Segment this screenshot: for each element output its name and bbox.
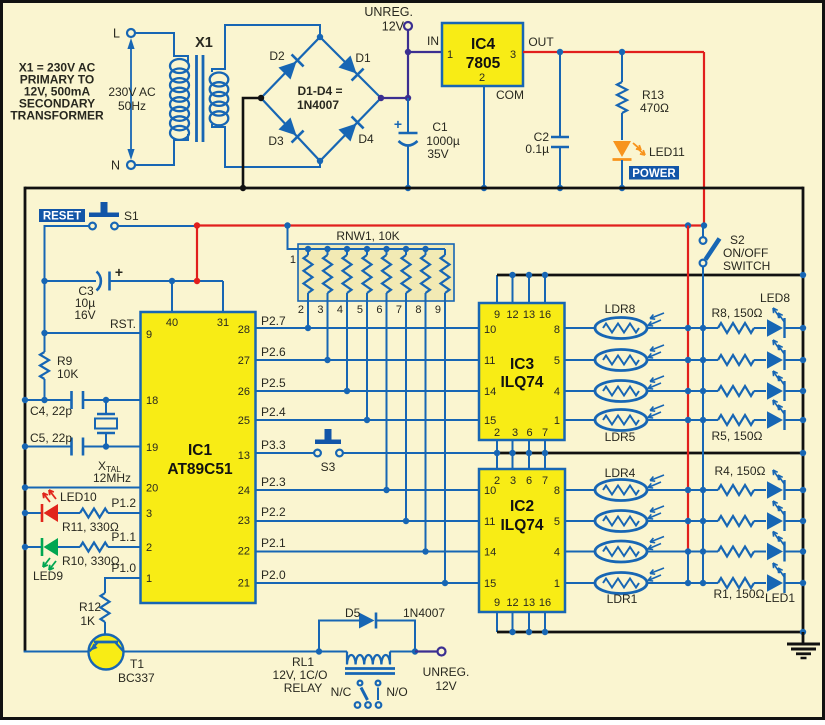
wire opto output row y=360 <box>565 359 597 361</box>
LDR at row y=583 <box>595 568 664 594</box>
node LDR-switch y=521 <box>700 518 706 524</box>
node LDR-switch y=490 <box>700 487 706 493</box>
svg-text:1: 1 <box>290 254 296 266</box>
ground bus left <box>24 187 27 652</box>
wire bridge to IC4 input (unreg 12V) <box>381 52 442 98</box>
svg-text:R8, 150Ω: R8, 150Ω <box>712 306 763 320</box>
svg-text:P2.6: P2.6 <box>261 345 286 359</box>
terminal N <box>111 159 135 173</box>
node LDR-red y=328 <box>685 325 691 331</box>
svg-text:470Ω: 470Ω <box>640 101 669 115</box>
wire P3.3 to S3 <box>256 452 315 454</box>
wire secondary top to bridge <box>212 25 320 72</box>
LDR at row y=328 <box>595 313 664 339</box>
node +5V corner <box>685 222 691 228</box>
IC1 left pin numbers <box>146 329 158 585</box>
node LED-gnd y=360 <box>800 357 806 363</box>
node bridge left <box>258 95 264 101</box>
node bridge right <box>378 95 384 101</box>
XTAL label <box>93 459 131 485</box>
LED10 red indicator <box>25 490 97 522</box>
wire LED to ground bus y=328 <box>785 327 804 329</box>
wire COM to ground bus <box>483 86 485 188</box>
node relay left <box>316 648 322 654</box>
LDR at row y=490 <box>595 475 664 501</box>
svg-text:18: 18 <box>146 395 158 407</box>
svg-text:LED8: LED8 <box>760 291 790 305</box>
series resistor at row y=360 <box>718 355 754 365</box>
wire C4 row <box>25 399 71 401</box>
svg-text:11: 11 <box>484 516 495 528</box>
wire C1 to ground bus <box>407 146 409 188</box>
diode D1 <box>338 51 371 81</box>
svg-text:LDR1: LDR1 <box>607 592 638 606</box>
svg-text:R5, 150Ω: R5, 150Ω <box>712 429 763 443</box>
wire LED11 to ground bus <box>621 160 623 188</box>
node COM-gnd <box>481 185 487 191</box>
wire opto output row y=551.5 <box>565 551 597 553</box>
svg-text:10: 10 <box>484 324 496 336</box>
node C1-gnd <box>405 185 411 191</box>
wire LED to ground bus y=521 <box>785 520 804 522</box>
svg-text:1: 1 <box>554 415 560 427</box>
svg-text:POWER: POWER <box>632 168 676 180</box>
pushbutton S3 <box>314 429 343 474</box>
node LDR-red y=420 <box>685 417 691 423</box>
capacitor C3 <box>45 264 224 333</box>
node LED10-gnd <box>22 510 28 516</box>
wire S2 to LED rows <box>702 266 704 583</box>
terminal UNREG 12V top <box>364 5 413 34</box>
wire +5V down to switch S2 <box>703 52 705 226</box>
node C4-R9 <box>41 397 47 403</box>
LDR at row y=420 <box>595 405 664 431</box>
svg-text:P1.0: P1.0 <box>111 561 136 575</box>
wire L to primary <box>135 33 188 62</box>
crystal XTAL 12MHz <box>95 400 117 447</box>
svg-text:1K: 1K <box>80 614 95 628</box>
IC3 top pin risers <box>497 275 545 303</box>
transistor T1 BC337 <box>88 635 155 686</box>
wire to IC1 pin 31 <box>222 281 224 312</box>
svg-text:0.1µ: 0.1µ <box>525 142 549 156</box>
wire S1 left leg <box>45 226 90 278</box>
resistor R13 <box>617 52 669 140</box>
svg-text:23: 23 <box>238 515 250 527</box>
svg-text:AT89C51: AT89C51 <box>167 461 233 478</box>
svg-text:RST.: RST. <box>110 317 136 331</box>
svg-text:R12: R12 <box>79 600 101 614</box>
wire opto output row y=391 <box>565 390 597 392</box>
IC3 bottom risers to IC2 <box>497 440 545 469</box>
svg-text:UNREG.: UNREG. <box>364 5 413 19</box>
svg-text:2: 2 <box>479 72 485 84</box>
series resistor at row y=490 <box>718 485 754 495</box>
svg-text:ILQ74: ILQ74 <box>500 517 543 534</box>
svg-text:ON/OFF: ON/OFF <box>723 246 768 260</box>
wire LED to ground bus y=360 <box>785 359 804 361</box>
svg-text:8: 8 <box>415 304 421 316</box>
svg-text:230V AC: 230V AC <box>108 85 156 99</box>
LED at row y=328 <box>767 308 785 338</box>
svg-text:D3: D3 <box>268 134 284 148</box>
svg-text:LED9: LED9 <box>33 569 63 583</box>
svg-text:P1.1: P1.1 <box>111 530 136 544</box>
svg-text:L: L <box>113 27 120 41</box>
svg-text:BC337: BC337 <box>118 671 155 685</box>
svg-text:C1: C1 <box>432 120 448 134</box>
node S1-+5V <box>194 222 200 228</box>
wire row P2.2 <box>256 520 480 522</box>
node C3-pin40 <box>169 278 175 284</box>
svg-text:13: 13 <box>523 597 535 609</box>
svg-text:12V, 1C/O: 12V, 1C/O <box>273 668 328 682</box>
svg-text:6: 6 <box>376 304 382 316</box>
optocoupler IC3 ILQ74 <box>479 303 565 440</box>
diode D2 <box>269 49 303 80</box>
svg-text:IC3: IC3 <box>510 356 535 373</box>
LED at row y=490 <box>767 470 785 500</box>
ground bus bottom <box>497 631 803 634</box>
svg-text:P2.1: P2.1 <box>261 536 286 550</box>
svg-text:P2.7: P2.7 <box>261 314 286 328</box>
svg-text:6: 6 <box>526 427 532 439</box>
+5V red drop to LED rows <box>687 226 689 552</box>
node S2 top feed <box>701 222 707 228</box>
ground bus upper right <box>497 274 803 277</box>
svg-text:LED10: LED10 <box>60 490 97 504</box>
node C4-xtal <box>103 397 109 403</box>
wire to C1 <box>407 98 409 132</box>
node LED-gnd y=328 <box>800 325 806 331</box>
svg-text:S1: S1 <box>124 209 139 223</box>
node unreg-in <box>405 49 411 55</box>
svg-text:D5: D5 <box>345 606 361 620</box>
node C2 top <box>557 49 563 55</box>
node LDR-red y=391 <box>685 388 691 394</box>
node bridge bottom <box>317 158 323 164</box>
wire row P2.7 <box>256 327 480 329</box>
node LDR-switch y=328 <box>700 325 706 331</box>
svg-text:2: 2 <box>146 542 152 554</box>
node LED11-gnd <box>619 185 625 191</box>
LED at row y=551.5 <box>767 532 785 562</box>
svg-text:19: 19 <box>146 442 158 454</box>
wire S3 to ground bus <box>343 452 497 454</box>
wire opto output row y=328 <box>565 327 597 329</box>
capacitor C2 <box>525 52 569 188</box>
svg-text:R4, 150Ω: R4, 150Ω <box>715 464 766 478</box>
wire collector to relay <box>124 651 347 653</box>
node LED-gnd y=420 <box>800 417 806 423</box>
RNW1 common rail from +5V <box>288 226 446 250</box>
svg-text:C5, 22p: C5, 22p <box>30 431 72 445</box>
transformer X1 secondary coil <box>210 73 229 126</box>
bridge wires <box>261 37 381 161</box>
svg-text:P2.3: P2.3 <box>261 475 286 489</box>
svg-text:COM: COM <box>496 88 524 102</box>
svg-text:5: 5 <box>554 516 560 528</box>
series resistor at row y=583 <box>718 578 754 588</box>
node LED-gnd y=391 <box>800 388 806 394</box>
svg-text:11: 11 <box>484 355 495 367</box>
node RST <box>41 330 47 336</box>
svg-text:16: 16 <box>539 597 551 609</box>
svg-text:LDR4: LDR4 <box>605 466 636 480</box>
LED at row y=420 <box>767 400 785 430</box>
note: transformer specification text <box>10 61 104 123</box>
wire RST row <box>45 332 141 334</box>
relay contacts N/C N/O <box>331 681 408 708</box>
svg-text:10K: 10K <box>57 367 78 381</box>
LED at row y=391 <box>767 371 785 401</box>
svg-text:3: 3 <box>510 49 516 61</box>
LED at row y=583 <box>767 563 785 593</box>
svg-text:10: 10 <box>484 485 496 497</box>
switch S2 on/off <box>700 226 771 274</box>
svg-text:7: 7 <box>542 427 548 439</box>
svg-text:3: 3 <box>512 427 518 439</box>
svg-text:9: 9 <box>435 304 441 316</box>
svg-text:24: 24 <box>238 485 250 497</box>
wire +5V from IC4 OUT <box>523 51 704 53</box>
svg-text:N: N <box>111 159 120 173</box>
wire row P2.0 <box>256 582 480 584</box>
pushbutton S1 <box>89 202 139 229</box>
svg-text:9: 9 <box>494 309 500 321</box>
svg-text:22: 22 <box>238 546 250 558</box>
+5V rail red horizontal <box>197 224 704 226</box>
node R13 top <box>619 49 625 55</box>
svg-text:S2: S2 <box>730 233 745 247</box>
node LED-gnd y=551.5 <box>800 548 806 554</box>
svg-text:TRANSFORMER: TRANSFORMER <box>10 109 104 123</box>
svg-text:31: 31 <box>217 317 229 329</box>
svg-text:SWITCH: SWITCH <box>723 259 770 273</box>
diode D5 loop <box>319 621 359 652</box>
svg-text:4: 4 <box>554 386 560 398</box>
svg-text:RNW1, 10K: RNW1, 10K <box>336 229 399 243</box>
svg-text:16V: 16V <box>74 308 95 322</box>
wire to IC1 pin 40 <box>171 281 173 312</box>
svg-text:28: 28 <box>238 324 250 336</box>
wire IC1 pin20 to frame <box>25 487 141 489</box>
svg-text:12MHz: 12MHz <box>93 471 131 485</box>
svg-text:N/C: N/C <box>331 685 352 699</box>
LED9 green indicator <box>25 538 63 583</box>
svg-text:4: 4 <box>554 547 560 559</box>
wire opto output row y=521 <box>565 520 597 522</box>
svg-text:D1: D1 <box>355 51 371 65</box>
svg-text:40: 40 <box>166 317 178 329</box>
wire S1 right to +5V node <box>118 225 197 227</box>
wire LED to ground bus y=551.5 <box>785 551 804 553</box>
svg-text:P2.4: P2.4 <box>261 405 286 419</box>
LED11 power indicator <box>613 141 686 160</box>
svg-text:LED1: LED1 <box>765 591 795 605</box>
node LDR-red y=521 <box>685 518 691 524</box>
svg-text:RL1: RL1 <box>292 655 314 669</box>
svg-text:27: 27 <box>238 355 250 367</box>
resistor R10 <box>58 543 141 569</box>
node LDR-red y=551.5 <box>685 548 691 554</box>
node bridge-gnd junction <box>240 185 246 191</box>
svg-text:N/O: N/O <box>386 685 407 699</box>
svg-text:6: 6 <box>526 475 532 487</box>
node C5-xtal <box>103 443 109 449</box>
svg-text:IC2: IC2 <box>510 498 534 515</box>
svg-text:R9: R9 <box>57 354 73 368</box>
wire resistor to LED y=583 <box>754 582 766 584</box>
diode D5 <box>345 606 445 629</box>
series resistor at row y=391 <box>718 386 754 396</box>
svg-text:9: 9 <box>494 597 500 609</box>
diode D4 <box>338 116 374 146</box>
node LDR-switch y=391 <box>700 388 706 394</box>
svg-text:R11, 330Ω: R11, 330Ω <box>62 520 119 534</box>
node LDR-switch y=583 <box>700 580 706 586</box>
node LED-gnd y=583 <box>800 580 806 586</box>
svg-text:LED11: LED11 <box>649 145 685 159</box>
POWER label <box>629 166 679 180</box>
capacitor C5 <box>30 431 141 456</box>
node LDR-switch y=360 <box>700 357 706 363</box>
resistor R12 <box>79 593 110 635</box>
wire resistor to LED y=328 <box>754 327 766 329</box>
LED at row y=360 <box>767 340 785 370</box>
svg-text:8: 8 <box>554 324 560 336</box>
series resistor at row y=521 <box>718 516 754 526</box>
svg-text:IN: IN <box>427 34 439 48</box>
ground bus right <box>802 187 805 632</box>
RNW1 column drops <box>305 293 448 586</box>
wire red drop continues to last row <box>687 552 689 584</box>
svg-text:+: + <box>115 264 123 280</box>
svg-text:16: 16 <box>539 309 551 321</box>
IC1 port labels <box>111 314 286 582</box>
wire emitter to frame <box>24 651 89 653</box>
svg-text:C4, 22p: C4, 22p <box>30 404 72 418</box>
svg-text:1N4007: 1N4007 <box>297 98 339 112</box>
svg-text:20: 20 <box>146 483 158 495</box>
wire resistor to LED y=551.5 <box>754 551 766 553</box>
wire row P2.5 <box>256 390 480 392</box>
regulator IC4 7805 <box>427 23 554 102</box>
svg-text:D2: D2 <box>269 49 285 63</box>
svg-text:50Hz: 50Hz <box>118 99 146 113</box>
nodes on upper right bus <box>509 272 806 278</box>
svg-text:IC1: IC1 <box>188 442 213 459</box>
node bridge-out <box>405 95 411 101</box>
node LED9-gnd <box>22 544 28 550</box>
terminal UNREG 12V bottom <box>423 648 470 694</box>
wire resistor to LED y=360 <box>754 359 766 361</box>
node RNW1 feed <box>284 222 290 228</box>
wire bridge left to ground bus <box>243 98 261 188</box>
svg-text:1: 1 <box>447 49 453 61</box>
wire row P2.4 <box>256 419 480 421</box>
optocoupler IC2 ILQ74 <box>479 469 565 612</box>
wire resistor to LED y=490 <box>754 489 766 491</box>
svg-text:13: 13 <box>238 450 250 462</box>
bridge value label <box>297 84 343 112</box>
node LDR-red y=583 <box>685 580 691 586</box>
svg-text:21: 21 <box>238 578 250 590</box>
LDR at row y=551.5 <box>595 537 664 563</box>
svg-text:14: 14 <box>484 386 496 398</box>
capacitor C1 <box>394 116 460 161</box>
wire row P2.6 <box>256 359 480 361</box>
svg-text:X1: X1 <box>195 35 213 51</box>
wire LED to ground bus y=490 <box>785 489 804 491</box>
IC2 bottom risers to ground bus <box>497 612 545 632</box>
node relay right <box>412 648 418 654</box>
svg-text:3: 3 <box>510 475 516 487</box>
svg-text:12V: 12V <box>382 20 405 34</box>
resistor R11 <box>58 509 141 535</box>
nodes on middle bus <box>494 450 806 456</box>
wire relay to unreg terminal <box>415 650 438 652</box>
wire opto output row y=420 <box>565 419 597 421</box>
series resistor at row y=328 <box>718 323 754 333</box>
wire resistor to LED y=391 <box>754 390 766 392</box>
svg-text:IC4: IC4 <box>471 36 496 53</box>
svg-text:OUT: OUT <box>528 35 554 49</box>
svg-text:1: 1 <box>554 578 560 590</box>
wire row P2.1 <box>256 551 480 553</box>
wire IC1 pin1 to R12 <box>105 578 141 593</box>
svg-text:13: 13 <box>523 309 535 321</box>
svg-text:RELAY: RELAY <box>284 681 322 695</box>
node C5-gnd frame <box>22 443 28 449</box>
node LDR-switch y=420 <box>700 417 706 423</box>
microcontroller IC1 AT89C51 <box>141 312 256 603</box>
ground bus top <box>25 187 803 190</box>
svg-text:ILQ74: ILQ74 <box>500 374 543 391</box>
svg-text:5: 5 <box>357 304 363 316</box>
diode D3 <box>268 117 303 148</box>
wire LED to ground bus y=391 <box>785 390 804 392</box>
diode D5 loop right <box>376 621 415 652</box>
transformer X1 primary coil <box>170 59 189 140</box>
svg-text:1N4007: 1N4007 <box>403 606 445 620</box>
svg-text:RESET: RESET <box>43 211 81 223</box>
node LED-gnd y=490 <box>800 487 806 493</box>
IC1 right pin numbers <box>238 324 250 590</box>
LED at row y=521 <box>767 501 785 531</box>
svg-text:UNREG.: UNREG. <box>423 665 470 679</box>
RESET label <box>39 209 85 223</box>
svg-text:1000µ: 1000µ <box>426 134 460 148</box>
wire resistor to LED y=521 <box>754 520 766 522</box>
svg-text:D1-D4 =: D1-D4 = <box>297 84 342 98</box>
svg-text:P2.2: P2.2 <box>261 505 286 519</box>
svg-text:1: 1 <box>146 573 152 585</box>
svg-text:P1.2: P1.2 <box>111 496 136 510</box>
capacitor C4 <box>30 391 141 418</box>
wire secondary bottom to bridge <box>212 124 320 167</box>
nodes on bottom bus <box>509 629 806 635</box>
series resistor at row y=551.5 <box>718 547 754 557</box>
wire resistor to LED y=420 <box>754 419 766 421</box>
wire N to primary <box>135 134 188 165</box>
LDR at row y=360 <box>595 345 664 371</box>
svg-text:P2.0: P2.0 <box>261 568 286 582</box>
LDR at row y=521 <box>595 506 664 532</box>
RNW1 resistors <box>304 249 450 293</box>
wire C5 row <box>25 446 71 448</box>
ground bus middle <box>497 452 803 455</box>
